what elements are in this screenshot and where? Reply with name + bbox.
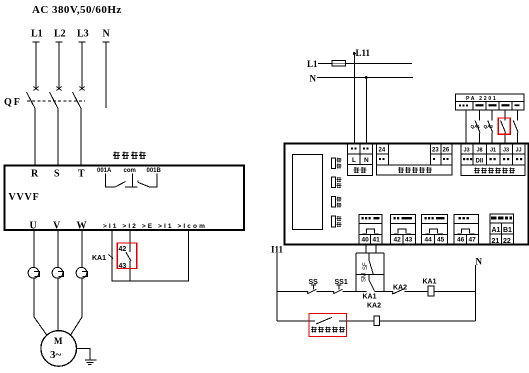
svg-text:JJ: JJ: [516, 148, 522, 154]
svg-text:L3: L3: [77, 29, 89, 40]
svg-text:SS1: SS1: [335, 279, 348, 286]
svg-text:J8: J8: [477, 148, 483, 154]
svg-text:N: N: [310, 74, 317, 84]
svg-text:41: 41: [373, 237, 381, 244]
svg-text:26: 26: [443, 148, 450, 154]
svg-text:A1: A1: [492, 227, 501, 234]
svg-text:L11: L11: [356, 48, 371, 58]
svg-text:47: 47: [469, 237, 477, 244]
svg-text:001B: 001B: [147, 168, 162, 174]
svg-text:>I1 >I2 >E >I1 >Icom: >I1 >I2 >E >I1 >Icom: [103, 223, 207, 230]
svg-text:R: R: [31, 169, 39, 180]
svg-text:45: 45: [437, 237, 445, 244]
svg-text:VVVF: VVVF: [9, 192, 40, 203]
svg-text:KA2: KA2: [367, 303, 381, 310]
svg-text:KA2: KA2: [393, 285, 407, 292]
svg-text:L2: L2: [54, 29, 66, 40]
svg-text:42: 42: [119, 246, 127, 253]
svg-text:L1: L1: [307, 59, 318, 69]
svg-text:N: N: [476, 257, 483, 267]
svg-text:QA1: QA1: [471, 124, 481, 129]
svg-text:QF: QF: [4, 97, 22, 108]
svg-text:KA1: KA1: [423, 279, 437, 286]
svg-text:S: S: [54, 169, 60, 180]
svg-text:L: L: [352, 157, 356, 164]
svg-text:22: 22: [503, 238, 511, 245]
svg-text:N: N: [103, 29, 111, 40]
svg-text:W: W: [77, 221, 87, 232]
svg-text:L1: L1: [31, 29, 43, 40]
svg-text:43: 43: [119, 263, 127, 270]
svg-text:QA2: QA2: [484, 124, 494, 129]
svg-text:N: N: [364, 157, 369, 164]
svg-text:23: 23: [432, 148, 439, 154]
svg-text:SM: SM: [361, 273, 367, 282]
svg-text:3~: 3~: [50, 349, 62, 361]
svg-text:42: 42: [394, 237, 402, 244]
svg-text:B1: B1: [503, 227, 512, 234]
svg-text:AC 380V,50/60Hz: AC 380V,50/60Hz: [32, 4, 122, 16]
svg-text:J3: J3: [503, 148, 509, 154]
svg-text:SS: SS: [309, 279, 319, 286]
svg-text:SF: SF: [363, 262, 369, 270]
svg-text:J1: J1: [490, 148, 496, 154]
svg-text:PA 2201: PA 2201: [466, 96, 498, 102]
svg-text:21: 21: [492, 238, 500, 245]
svg-text:J3: J3: [464, 148, 470, 154]
svg-text:43: 43: [405, 237, 413, 244]
svg-text:DII: DII: [476, 159, 484, 165]
svg-text:T: T: [78, 169, 85, 180]
svg-text:24: 24: [379, 148, 386, 154]
svg-text:KA1: KA1: [92, 255, 106, 262]
svg-text:44: 44: [425, 237, 433, 244]
svg-text:V: V: [53, 221, 61, 232]
svg-text:U: U: [30, 221, 37, 232]
svg-text:M: M: [54, 336, 63, 346]
svg-text:I11: I11: [271, 245, 284, 255]
svg-text:40: 40: [362, 237, 370, 244]
svg-text:KA1: KA1: [363, 294, 377, 301]
svg-text:46: 46: [457, 237, 465, 244]
svg-text:001A: 001A: [97, 168, 112, 174]
svg-text:com: com: [124, 168, 136, 174]
